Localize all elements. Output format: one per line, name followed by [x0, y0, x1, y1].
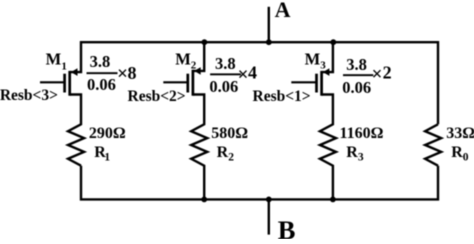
svg-text:×: × [238, 64, 249, 85]
svg-text:R: R [346, 144, 358, 161]
svg-text:M: M [46, 50, 62, 69]
svg-text:290Ω: 290Ω [89, 125, 126, 142]
svg-text:580Ω: 580Ω [211, 125, 248, 142]
svg-text:1160Ω: 1160Ω [340, 125, 384, 142]
svg-text:3.8: 3.8 [346, 55, 367, 74]
svg-text:1: 1 [61, 60, 67, 72]
svg-text:0.06: 0.06 [209, 77, 238, 96]
svg-text:Resb<2>: Resb<2> [128, 88, 186, 105]
svg-text:M: M [305, 50, 321, 69]
svg-text:B: B [278, 215, 296, 239]
svg-text:3.8: 3.8 [215, 54, 236, 73]
svg-text:Resb<3>: Resb<3> [0, 87, 58, 104]
svg-text:2: 2 [383, 62, 392, 82]
svg-text:0.06: 0.06 [342, 78, 371, 97]
svg-text:33Ω: 33Ω [446, 125, 474, 142]
svg-text:8: 8 [128, 63, 137, 83]
svg-text:R: R [451, 144, 463, 161]
svg-text:A: A [275, 0, 291, 22]
svg-text:3.8: 3.8 [90, 52, 111, 71]
svg-text:4: 4 [248, 63, 257, 83]
svg-text:R: R [217, 144, 229, 161]
svg-text:Resb<1>: Resb<1> [253, 88, 311, 105]
svg-text:M: M [175, 50, 191, 69]
svg-text:2: 2 [228, 152, 234, 164]
svg-text:0: 0 [463, 152, 469, 164]
svg-text:2: 2 [191, 59, 197, 71]
svg-text:1: 1 [104, 152, 110, 164]
svg-text:×: × [372, 64, 383, 85]
svg-text:×: × [117, 63, 128, 84]
svg-text:3: 3 [358, 152, 364, 164]
svg-text:3: 3 [320, 60, 326, 72]
svg-text:0.06: 0.06 [87, 75, 116, 94]
